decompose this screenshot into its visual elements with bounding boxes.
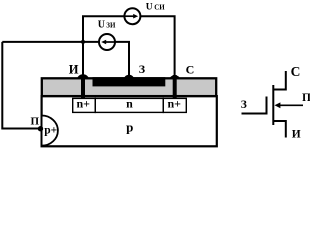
svg-text:И: И [69,62,79,76]
svg-text:С: С [291,64,301,79]
svg-text:И: И [292,128,301,140]
svg-text:n+: n+ [76,97,90,111]
svg-text:ЗИ: ЗИ [106,22,116,30]
svg-text:П: П [31,115,40,127]
svg-text:U: U [98,20,105,31]
svg-text:С: С [186,63,195,77]
svg-text:n+: n+ [167,97,181,111]
svg-text:n: n [126,97,133,111]
svg-text:З: З [139,62,145,76]
svg-text:p+: p+ [44,125,57,137]
svg-text:З: З [241,99,247,111]
svg-text:U: U [146,3,153,13]
svg-text:П: П [302,92,310,104]
svg-text:p: p [126,119,133,134]
svg-text:СИ: СИ [154,4,165,12]
